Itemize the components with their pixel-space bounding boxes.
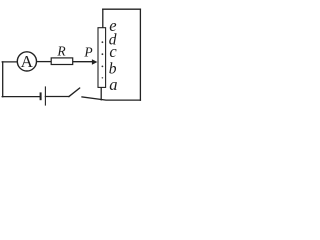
contact dot c: [102, 53, 104, 55]
svg-text:P: P: [83, 44, 92, 59]
svg-text:A: A: [21, 52, 34, 71]
pointer P arrowhead: [92, 59, 98, 65]
switch S blade: [69, 88, 80, 97]
wire battery to switch: [45, 96, 69, 98]
wire top horizontal: [103, 8, 141, 10]
wire right vertical: [139, 9, 141, 100]
contact dot d: [102, 41, 104, 43]
battery negative plate short: [40, 92, 42, 100]
wire switch right contact sloped: [82, 97, 140, 100]
wire left vertical: [2, 62, 4, 97]
contact dot a: [102, 77, 104, 79]
svg-text:c: c: [109, 42, 117, 61]
wire bottom stub from tube: [100, 87, 102, 99]
ammeter A circle: [17, 52, 36, 71]
wire ammeter to resistor: [37, 61, 52, 63]
contact dot b: [102, 66, 104, 68]
battery positive plate long: [44, 86, 46, 105]
resistance tube rectangle: [98, 28, 106, 88]
wire bottom left horizontal: [2, 96, 40, 98]
wire resistor to pointer P: [73, 61, 93, 63]
wire top stub to tube: [102, 9, 104, 28]
svg-text:a: a: [109, 75, 117, 94]
resistor R box: [51, 58, 72, 65]
svg-text:R: R: [56, 44, 66, 59]
wire ammeter left: [2, 61, 17, 63]
